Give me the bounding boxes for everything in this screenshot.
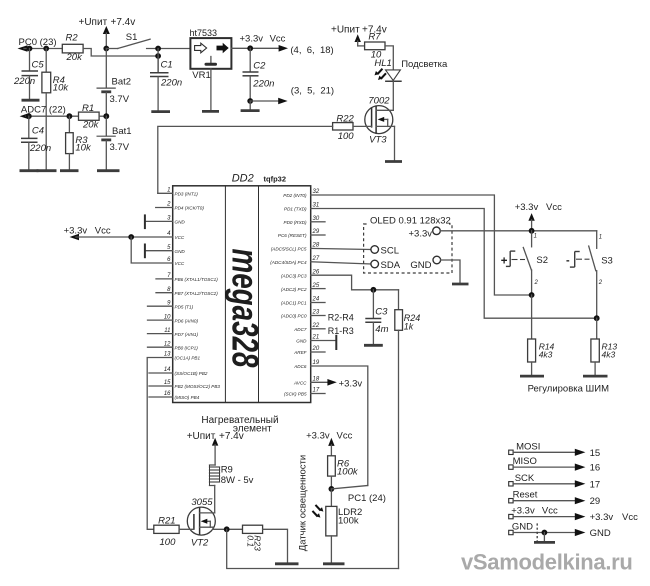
arrow to pins (4,6,18) [279,45,288,52]
OLED label mask [369,216,449,226]
svg-text:17: 17 [313,388,320,394]
wire R1 to battery [99,115,106,117]
pin 23 (ADC0) PC0 [281,310,325,319]
switch S3 [566,231,613,318]
svg-text:Подсветка: Подсветка [401,59,448,70]
junction VT2 source [224,526,230,532]
pin 22 ADC7 [293,323,325,332]
ground tick pin 21 [335,335,337,350]
svg-text:Bat2: Bat2 [112,77,132,88]
resistor R7 [365,32,385,61]
svg-text:24: 24 [312,297,320,303]
svg-text:8W - 5v: 8W - 5v [221,475,254,486]
svg-text:220n: 220n [13,76,35,87]
svg-text:15: 15 [590,448,601,459]
svg-text:+3.3v: +3.3v [306,431,330,442]
svg-text:S3: S3 [601,256,613,267]
svg-text:VCC: VCC [175,261,185,266]
junction Vcc-C2 [247,45,253,51]
ISP row +3.3v [509,506,638,524]
svg-text:GND: GND [175,249,186,254]
pin 17 (SCK) PB5 [284,388,325,397]
switch S1 [118,32,191,49]
svg-text:PB2 (MOSI/OC2) PB3: PB2 (MOSI/OC2) PB3 [175,384,221,389]
ground battery [97,169,120,172]
wire R23 to ground [263,529,288,562]
svg-text:GND: GND [410,260,431,271]
svg-text:100: 100 [338,131,355,142]
svg-text:+3.3v: +3.3v [240,34,264,45]
resistor R14 [528,339,555,375]
wire junction to S1 [106,48,117,50]
ground R4 [37,169,57,172]
svg-text:13: 13 [164,352,171,358]
pin 7 PB6 (XTAL1/TOSC1) [156,273,218,282]
arrow pin18 +3.3v [327,379,336,386]
svg-text:HL1: HL1 [374,58,391,69]
svg-text:vSamodelkina.ru: vSamodelkina.ru [461,550,633,575]
svg-text:10k: 10k [53,83,70,94]
resistor R22 [333,114,355,143]
svg-text:100k: 100k [338,516,359,527]
resistor R9 heater coil [210,465,254,487]
pin 12 PB0 (ICP1) [148,341,199,350]
junction Bat1 plus [103,113,109,119]
svg-text:Vcc: Vcc [546,202,562,213]
svg-text:21: 21 [312,335,320,341]
svg-text:4m: 4m [375,324,388,335]
pin 4 VCC [167,231,185,240]
capacitor C3 [364,287,389,345]
svg-text:SCL: SCL [381,246,399,257]
svg-text:1: 1 [599,235,602,241]
transistor VT3 7002 [365,96,395,146]
svg-text:C4: C4 [32,126,44,137]
svg-text:16: 16 [590,463,601,474]
pin 32 PD2 (INT0) [283,189,320,198]
wire C2 to ground [249,101,251,109]
wire OLED +3.3v bus to S3 [440,230,596,232]
pin 10 PD6 (AIN0) [148,314,199,323]
svg-text:+3.3v: +3.3v [64,226,88,237]
junction bus S2 [529,228,535,234]
svg-text:4k3: 4k3 [539,350,553,360]
junction PC0-R4 [43,46,49,52]
svg-text:(MISO) PB4: (MISO) PB4 [175,395,200,400]
svg-text:(ADC4/SDA) PC4: (ADC4/SDA) PC4 [270,260,307,265]
pin 20 AREF [293,346,325,355]
junction S3 pin31 [594,315,600,321]
svg-text:VT2: VT2 [191,538,209,549]
svg-text:+3.3v: +3.3v [515,202,539,213]
junction R2 bypass lower [155,53,161,59]
svg-text:26: 26 [312,269,320,275]
wire VR1 output [231,47,280,49]
svg-text:PB0 (ICP1): PB0 (ICP1) [175,345,199,350]
wire S2 to R14 [531,295,533,339]
svg-text:PB7 (XTAL2/TOSC2): PB7 (XTAL2/TOSC2) [175,291,219,296]
svg-text:100k: 100k [337,467,359,478]
svg-text:Vcc: Vcc [337,431,353,442]
svg-text:100: 100 [160,537,177,548]
ISP row Reset [509,490,600,508]
pin 2 PD4 (XCK/T0) [156,202,205,211]
pin 30 PD0 (RXD) [284,216,325,225]
pin 14 (SS/OC1B) PB2 [149,367,208,376]
power arrow backlight [355,34,365,46]
svg-text:1k: 1k [404,322,414,332]
svg-text:Reset: Reset [513,490,538,501]
wire junction vertical [157,49,159,73]
svg-text:R7: R7 [368,32,381,43]
junction S1-VR1-C1 upper [155,46,161,52]
arrow Vcc left [70,234,80,240]
svg-text:(4, 6, 18): (4, 6, 18) [290,45,333,56]
svg-text:7002: 7002 [368,96,390,107]
svg-text:+Uпит: +Uпит [79,17,108,28]
net +3.3v Vcc left label [64,226,111,237]
pin 6 VCC [167,257,185,266]
svg-text:10k: 10k [75,143,92,154]
pin 11 PD7 (AIN1) [148,328,199,337]
ground OLED [452,283,469,286]
wire pin26 to C3/R24 node [311,275,399,290]
svg-text:23: 23 [312,310,320,316]
junction R6 LDR PC1 [329,486,335,492]
resistor R4 [42,49,69,170]
net +3.3v Vcc switches label [515,202,562,213]
power arrow LDR divider [328,438,334,456]
ground R14 [520,375,544,378]
svg-text:PB6 (XTAL1/TOSC1): PB6 (XTAL1/TOSC1) [175,277,219,282]
svg-text:(ADC3) PC3: (ADC3) PC3 [281,273,307,278]
svg-text:VCC: VCC [175,235,185,240]
OLED pin GND [410,256,440,271]
svg-text:+Uпит: +Uпит [331,25,360,36]
svg-text:220n: 220n [160,78,182,89]
wire VR1 ground [210,69,212,110]
wire R2 to VR1 input (stepped) [83,49,158,57]
wire ADC7 net [26,115,79,117]
svg-text:(3, 5, 21): (3, 5, 21) [291,86,334,97]
pin 31 PD1 (TXD) [284,203,319,212]
ISP GND dashed tick [536,523,538,541]
switch S2 [501,231,548,295]
pin 29 PC6 (RESET) [278,229,325,238]
power arrow +Upit [103,26,110,49]
svg-text:11: 11 [164,328,170,334]
junction battery plus [103,46,109,52]
svg-text:+3.3v: +3.3v [339,379,363,390]
regulator VR1 ht7533 [190,28,232,81]
capacitor C1 [150,56,182,110]
pin 15 (MOSI/OC2) PB3 [149,380,220,389]
capacitor C4 [21,116,51,169]
svg-text:2: 2 [598,280,603,286]
svg-text:25: 25 [312,283,320,289]
svg-text:31: 31 [313,203,320,209]
pin 26 (ADC3) PC3 [281,269,320,278]
svg-text:10: 10 [164,314,171,320]
ground R13 [583,375,608,378]
wire Vcc to pin4 [76,236,173,238]
junction ADC7-C4 [26,113,32,119]
svg-text:29: 29 [590,496,601,507]
svg-text:+Uпит: +Uпит [187,431,216,442]
svg-text:30: 30 [313,216,320,222]
resistor R6 [328,456,359,489]
svg-text:GND: GND [512,522,533,533]
pin 3 GND [146,216,185,225]
svg-text:+7.4v: +7.4v [111,17,136,28]
svg-text:mega328: mega328 [225,249,266,368]
svg-text:VT3: VT3 [369,135,387,146]
wire to (3,5,21) arrow [250,100,279,102]
capacitor C5 [13,49,44,100]
svg-text:PD0 (RXD): PD0 (RXD) [284,220,307,225]
svg-text:3.7V: 3.7V [110,142,130,153]
IC DD2 mega328 [173,173,311,403]
svg-text:(ADC0) PC0: (ADC0) PC0 [281,314,307,319]
resistor R1 [79,103,100,131]
wire node to pin19 riser [331,486,367,489]
svg-text:29: 29 [312,229,320,235]
wire pin19 to LDR node [311,366,368,486]
ground C2 [241,109,260,112]
ISP row MISO [509,456,600,474]
svg-text:220n: 220n [29,143,51,154]
wire pin21 [311,340,337,342]
svg-text:4k3: 4k3 [602,350,616,360]
svg-text:-: - [566,255,570,267]
wire LED to VT3 drain [392,81,394,110]
svg-text:2: 2 [166,202,171,208]
svg-text:R2-R4: R2-R4 [328,313,354,323]
svg-text:PD5 (T1): PD5 (T1) [175,304,194,309]
svg-text:(SCK) PB5: (SCK) PB5 [284,392,307,397]
transistor VT2 3055 [187,497,215,549]
svg-text:20: 20 [312,346,320,352]
svg-text:15: 15 [164,380,171,386]
wire R21 to VT2 gate [179,528,194,530]
pin 16 (MISO) PB4 [149,391,200,400]
wire pin13 to R21 riser [147,358,173,530]
svg-text:ht7533: ht7533 [190,28,218,38]
net +Upit backlight label [331,25,387,36]
ISP GND junction [542,530,548,536]
net +Upit heater label [187,431,244,442]
svg-text:19: 19 [313,360,320,366]
svg-text:27: 27 [312,256,320,262]
wire pin32 to S2 bottom [311,195,532,295]
svg-text:+3.3v: +3.3v [511,506,535,517]
svg-text:20k: 20k [66,52,84,63]
svg-text:S2: S2 [536,255,548,266]
svg-text:+3.3v: +3.3v [409,229,433,240]
svg-text:(ADC1) PC1: (ADC1) PC1 [281,301,307,306]
junction S2 pin32 [529,292,535,298]
svg-text:MISO: MISO [513,456,537,467]
wire ISP GND down [543,533,545,542]
pin 18 AVCC [293,377,320,386]
svg-text:28: 28 [312,243,320,249]
svg-text:PD3 (INT1): PD3 (INT1) [175,192,199,197]
svg-text:Датчик освещенности: Датчик освещенности [298,455,309,551]
svg-text:(ADC2) PC2: (ADC2) PC2 [281,287,307,292]
svg-text:C2: C2 [253,61,266,72]
svg-text:Vcc: Vcc [542,506,558,517]
wire R7 to LED [385,46,393,70]
resistor R2 [62,33,83,64]
power arrow switches [528,213,534,231]
svg-text:(SS/OC1B) PB2: (SS/OC1B) PB2 [175,371,208,376]
svg-text:+7.4v: +7.4v [219,431,244,442]
svg-text:0.1: 0.1 [245,535,255,547]
svg-text:22: 22 [312,323,320,329]
ground VR1 [202,110,219,113]
pin 8 PB7 (XTAL2/TOSC2) [156,287,218,296]
resistor R23 [243,525,263,551]
junction Vcc pin4/pin6 [128,234,134,240]
pin 27 (ADC4/SDA) PC4 [270,256,320,265]
pin 5 GND [146,245,185,254]
wire pin27 to SDA [311,262,371,264]
svg-text:C5: C5 [32,60,45,71]
net +3.3v Vcc label [240,34,286,45]
svg-text:SCK: SCK [515,473,535,484]
svg-text:ADC6: ADC6 [293,364,307,369]
ISP row MOSI [509,441,600,459]
svg-text:17: 17 [590,479,601,490]
svg-text:14: 14 [164,367,171,373]
svg-text:GND: GND [175,220,186,225]
svg-text:R9: R9 [221,465,233,476]
pin 25 (ADC2) PC2 [281,283,325,292]
OLED pin SDA [371,260,401,271]
svg-text:R1: R1 [82,103,94,114]
svg-text:PD4 (XCK/T0): PD4 (XCK/T0) [175,206,205,211]
svg-text:ADC7: ADC7 [293,327,307,332]
ground ISP [534,541,555,544]
wire VT3 source to ground [394,126,396,160]
ground tick pin 3 [144,214,146,229]
pin 21 GND [296,335,319,344]
svg-text:C1: C1 [161,60,173,71]
arrow to pins (3,5,21) [278,98,287,105]
wire pin28 to SCL [311,248,371,249]
wire R9 to VT2 drain [214,486,216,513]
svg-text:32: 32 [313,189,320,195]
svg-text:PD7 (AIN1): PD7 (AIN1) [175,332,199,337]
ground C5 bar [22,99,40,102]
wire pin18 AVCC [311,381,329,383]
svg-text:S1: S1 [126,32,138,43]
pin 19 ADC6 [293,360,320,369]
svg-text:16: 16 [164,391,171,397]
node ADC7 arrow [20,113,30,120]
svg-text:R22: R22 [336,114,354,125]
ground tick pin 5 [144,244,146,259]
svg-text:PD6 (AIN0): PD6 (AIN0) [175,318,199,323]
OLED module dashed box [364,224,452,273]
svg-text:Регулировка ШИМ: Регулировка ШИМ [528,384,609,395]
resistor R13 [591,339,617,375]
junction PC0-C5 [27,46,33,52]
power arrow heater [212,438,218,465]
svg-text:MOSI: MOSI [516,441,540,452]
net +3.3v Vcc LDR label [306,431,352,442]
photoresistor LDR2 [312,489,363,563]
wire pin31 to S3 bottom [311,209,597,319]
OLED pin +3.3v [409,227,441,240]
pin 13 (OC1A) PB1 [164,352,201,361]
ground C1 [151,110,170,113]
svg-text:12: 12 [164,341,171,347]
svg-text:+3.3v: +3.3v [590,512,614,523]
svg-text:PC1 (24): PC1 (24) [348,493,386,504]
svg-text:R1-R3: R1-R3 [328,326,354,336]
svg-text:R2: R2 [66,33,79,44]
svg-text:AVCC: AVCC [293,381,307,386]
label heating element [201,415,278,435]
resistor R24 [395,290,421,569]
svg-text:PC6 (RESET): PC6 (RESET) [278,233,307,238]
wire source node to R24 bottom [227,529,399,568]
svg-text:DD2: DD2 [232,173,254,185]
svg-text:tqfp32: tqfp32 [264,175,287,184]
svg-text:PD1 (TXD): PD1 (TXD) [284,207,307,212]
svg-text:VR1: VR1 [192,70,210,81]
svg-text:1: 1 [167,188,170,194]
pin 28 (ADC5/SCL) PC5 [271,243,320,252]
svg-text:C3: C3 [375,307,388,318]
svg-text:Bat1: Bat1 [112,126,132,137]
svg-text:OLED 0.91 128x32: OLED 0.91 128x32 [370,216,451,227]
ground R3 [60,169,79,172]
resistor R3 [66,116,92,169]
wire PC0 net [24,48,62,50]
capacitor C2 [243,48,275,101]
svg-text:GND: GND [296,339,307,344]
ISP row GND [509,522,611,540]
svg-text:(OC1A) PB1: (OC1A) PB1 [175,356,201,361]
ISP row SCK [509,473,600,491]
svg-text:20k: 20k [82,120,100,131]
svg-text:GND: GND [590,528,611,539]
svg-text:R21: R21 [158,516,175,527]
ground LDR2 [323,562,345,565]
junction ADC7-R3 [67,113,73,119]
svg-text:AREF: AREF [293,350,307,355]
pin 9 PD5 (T1) [148,300,194,309]
OLED pin SCL [371,246,399,257]
resistor R21 [154,516,179,549]
wire Vcc to pin6 [131,237,173,263]
ground VT3 [385,160,402,163]
pin 24 (ADC1) PC1 [281,297,325,306]
LED HL1 [374,58,401,81]
pin 1 PD3 (INT1) [158,188,198,197]
net +Upit top-left power label [79,17,136,28]
svg-text:Vcc: Vcc [270,34,286,45]
ground C4 [20,169,39,172]
svg-text:Vcc: Vcc [622,512,638,523]
svg-text:18: 18 [313,377,320,383]
svg-text:(ADC5/SCL) PC5: (ADC5/SCL) PC5 [271,247,307,252]
svg-text:PD2 (INT0): PD2 (INT0) [283,193,307,198]
battery Bat1 [97,116,132,169]
battery Bat2 [97,49,132,117]
